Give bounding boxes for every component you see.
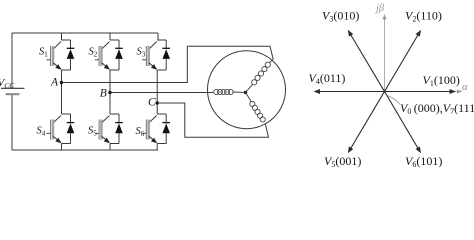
vector V2: [385, 35, 419, 92]
wire phase leg 1 vertical: [61, 70, 63, 114]
freewheeling diode D6: [165, 114, 167, 124]
svg-text:V6(101): V6(101): [405, 154, 442, 168]
svg-text:V4(011): V4(011): [309, 71, 346, 86]
svg-text:V0 (000),V7(111): V0 (000),V7(111): [400, 101, 474, 116]
IGBT S6: [149, 116, 157, 123]
svg-text:jβ: jβ: [374, 3, 385, 14]
svg-text:S1: S1: [39, 47, 48, 59]
winding phase A (upper-right coil): [270, 59, 274, 62]
wire collector stub leg 1: [61, 33, 63, 40]
svg-text:S2: S2: [89, 47, 98, 59]
vector V1: [385, 91, 451, 93]
freewheeling diode D3: [165, 40, 167, 49]
svg-text:B: B: [100, 87, 107, 99]
wire junction rails of S1: [62, 40, 71, 70]
vector V6: [385, 92, 419, 149]
wire junction rails of S3: [157, 40, 166, 70]
freewheeling diode D4: [70, 114, 72, 124]
vector V4: [319, 91, 385, 93]
svg-text:V5(001): V5(001): [324, 154, 361, 168]
svg-text:S5: S5: [88, 126, 97, 138]
wye center node: [244, 91, 247, 94]
freewheeling diode D5: [118, 114, 120, 124]
svg-text:V2(110): V2(110): [405, 9, 442, 24]
freewheeling diode D2: [118, 40, 120, 49]
IGBT S3: [149, 42, 157, 50]
wire bottom DC bus: [12, 149, 158, 151]
motor housing circle: [208, 51, 286, 129]
IGBT S2: [102, 42, 110, 50]
wire junction rails of S5: [110, 114, 119, 144]
vector V3: [351, 35, 385, 92]
wire phase leg 3 vertical: [156, 70, 158, 114]
IGBT S5: [102, 116, 110, 123]
axis j-beta: [384, 19, 386, 92]
svg-text:S4: S4: [37, 126, 46, 138]
wire emitter stub leg 1: [61, 144, 63, 151]
svg-text:V1(100): V1(100): [423, 73, 460, 88]
wire phase A to motor: [62, 46, 274, 82]
wire emitter stub leg 2: [109, 144, 111, 151]
vector V5: [351, 92, 385, 149]
svg-text:S6: S6: [136, 126, 145, 138]
svg-text:VCC: VCC: [0, 77, 15, 90]
wire collector stub leg 3: [157, 33, 159, 40]
wire junction rails of S6: [157, 114, 166, 144]
IGBT S4: [53, 116, 61, 123]
svg-text:V3(010): V3(010): [322, 9, 359, 24]
winding phase B (left coil): [214, 89, 219, 94]
svg-text:A: A: [50, 76, 59, 88]
freewheeling diode D1: [70, 40, 72, 49]
battery VCC negative plate: [6, 93, 20, 95]
wire phase C to motor: [157, 103, 268, 137]
node A: [60, 81, 63, 84]
node B: [108, 91, 111, 94]
wire junction rails of S2: [110, 40, 119, 70]
wire top DC bus: [12, 32, 158, 34]
wire phase B to motor: [110, 92, 213, 94]
wire left supply rail: [11, 33, 13, 150]
svg-text:S3: S3: [137, 47, 146, 59]
wire emitter stub leg 3: [156, 144, 158, 151]
svg-text:C: C: [148, 97, 156, 109]
wire collector stub leg 2: [109, 33, 111, 40]
battery VCC positive plate: [1, 87, 25, 89]
svg-text:α: α: [462, 82, 468, 93]
axis alpha: [385, 91, 460, 93]
node C: [156, 101, 159, 104]
leader to zero vectors label: [387, 95, 401, 105]
IGBT S1: [53, 42, 61, 50]
wire junction rails of S4: [62, 114, 71, 144]
winding phase C (lower-right coil): [260, 117, 265, 122]
wire phase leg 2 vertical: [109, 70, 111, 114]
